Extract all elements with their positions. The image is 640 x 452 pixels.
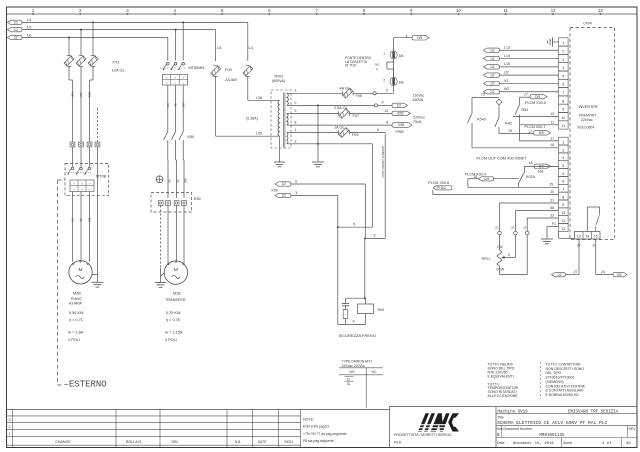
svg-text:W2: W2 <box>504 87 509 91</box>
svg-text:W01: W01 <box>88 91 92 98</box>
svg-text:FILE:: FILE: <box>394 441 402 445</box>
svg-text:0.75 KW: 0.75 KW <box>166 311 181 315</box>
svg-text:F05: F05 <box>356 94 363 98</box>
svg-text:1/2: 1/2 <box>490 82 495 86</box>
svg-text:E BOBINA 50V60 HZ: E BOBINA 50V60 HZ <box>546 393 580 397</box>
svg-text:18: 18 <box>550 143 554 147</box>
svg-text:1/2: 1/2 <box>490 73 495 77</box>
svg-text:1A GL: 1A GL <box>334 126 345 130</box>
svg-text:In = 2.15A: In = 2.15A <box>165 331 183 335</box>
svg-text:1/2: 1/2 <box>490 90 495 94</box>
svg-text:16A: 16A <box>538 170 545 174</box>
svg-text:W7: W7 <box>181 102 185 107</box>
svg-text:13: 13 <box>577 234 581 238</box>
svg-text:U2: U2 <box>504 70 509 74</box>
svg-text:75: 75 <box>481 93 485 97</box>
svg-text:η = 0.76: η = 0.76 <box>166 318 180 322</box>
svg-text:1: 1 <box>295 128 297 132</box>
svg-text:REV: REV <box>629 427 637 431</box>
svg-text:77: 77 <box>524 93 528 97</box>
svg-text:4: 4 <box>406 34 408 38</box>
svg-text:>: > <box>89 182 91 186</box>
svg-text:Size: Size <box>497 427 503 431</box>
svg-text:F09: F09 <box>352 133 359 137</box>
svg-text:3: 3 <box>295 139 297 143</box>
svg-text:U1: U1 <box>71 218 75 222</box>
svg-text:5: 5 <box>508 253 510 257</box>
svg-text:EMISVARO TRF SEDIZIA: EMISVARO TRF SEDIZIA <box>568 410 619 414</box>
svg-text:13: 13 <box>550 112 554 116</box>
svg-text:November 15, 2016: November 15, 2016 <box>513 441 554 446</box>
svg-text:6: 6 <box>562 83 564 87</box>
svg-text:1/2: 1/2 <box>557 273 562 277</box>
svg-text:3: 3 <box>562 58 564 62</box>
svg-text:6: 6 <box>377 128 379 132</box>
svg-text:24: 24 <box>601 270 605 274</box>
svg-text:9: 9 <box>295 109 297 113</box>
svg-text:L13: L13 <box>504 46 510 50</box>
svg-text:>: > <box>73 182 75 186</box>
svg-text:Sheet: Sheet <box>563 441 572 445</box>
svg-text:2: 2 <box>383 79 385 83</box>
svg-text:BOLLA N.: BOLLA N. <box>126 440 142 444</box>
svg-text:N.B: N.B <box>235 440 241 444</box>
svg-text:M: M <box>79 267 83 273</box>
svg-text:15: 15 <box>594 234 598 238</box>
svg-text:(0.38A): (0.38A) <box>246 117 258 121</box>
svg-text:23: 23 <box>523 226 527 230</box>
svg-text:L36: L36 <box>256 96 262 100</box>
svg-text:2.5A GL: 2.5A GL <box>334 106 348 110</box>
svg-text:10: 10 <box>561 116 565 120</box>
svg-text:D/2: D/2 <box>484 177 489 181</box>
svg-text:23: 23 <box>550 213 554 217</box>
svg-text:2: 2 <box>562 148 564 152</box>
svg-text:PROGETTISTA : MORETTI SERGIO: PROGETTISTA : MORETTI SERGIO <box>394 433 452 437</box>
svg-text:110Vac: 110Vac <box>413 93 425 97</box>
svg-text:INVERTER: INVERTER <box>579 105 598 109</box>
svg-text:1: 1 <box>562 41 564 45</box>
svg-text:D/2: D/2 <box>441 186 446 190</box>
svg-text:K50: K50 <box>188 135 195 139</box>
svg-text:10: 10 <box>384 109 388 113</box>
svg-text:13: 13 <box>598 8 603 13</box>
svg-text:13: 13 <box>561 211 565 215</box>
svg-text:12A GL: 12A GL <box>112 68 126 73</box>
svg-text:TRANSFER: TRANSFER <box>165 298 186 302</box>
svg-text:FT1: FT1 <box>113 60 121 65</box>
svg-text:75VA: 75VA <box>413 120 422 124</box>
svg-text:PLCM X00.5: PLCM X00.5 <box>525 101 546 105</box>
svg-text:K02A: K02A <box>526 175 536 179</box>
svg-text:D/2: D/2 <box>539 165 544 169</box>
svg-text:PWB: PWB <box>396 130 405 134</box>
svg-text:11: 11 <box>561 124 565 128</box>
svg-text:0: 0 <box>382 101 384 105</box>
svg-text:2: 2 <box>8 425 10 429</box>
svg-text:1/2: 1/2 <box>490 48 495 52</box>
svg-text:0: 0 <box>295 101 297 105</box>
svg-text:Title: Title <box>498 416 504 420</box>
svg-text:5: 5 <box>353 222 355 226</box>
svg-text:6: 6 <box>562 180 564 184</box>
svg-text:3G10.0604: 3G10.0604 <box>577 126 594 130</box>
svg-text:6: 6 <box>374 234 376 238</box>
svg-text:12: 12 <box>561 227 565 231</box>
svg-text:0/3: 0/3 <box>617 273 622 277</box>
svg-text:8: 8 <box>562 99 564 103</box>
svg-text:E50: E50 <box>194 197 201 201</box>
svg-text:3: 3 <box>295 89 297 93</box>
svg-text:L4: L4 <box>249 45 254 50</box>
svg-text:1/2: 1/2 <box>490 57 495 61</box>
svg-text:10: 10 <box>456 8 461 13</box>
svg-text:220Vcc: 220Vcc <box>413 116 425 120</box>
svg-text:21: 21 <box>550 198 554 202</box>
svg-text:27: 27 <box>574 270 578 274</box>
svg-text:1/2: 1/2 <box>13 21 18 25</box>
svg-text:NOTE:: NOTE: <box>303 417 314 421</box>
svg-text:In = 1.8A: In = 1.8A <box>68 331 84 335</box>
svg-text:1/2: 1/2 <box>13 28 18 32</box>
svg-text:1/2: 1/2 <box>282 194 287 198</box>
svg-text:17: 17 <box>550 136 554 140</box>
svg-text:220Vac 220Vcc: 220Vac 220Vcc <box>342 364 366 368</box>
svg-text:F07: F07 <box>353 114 360 118</box>
svg-text:MT50MN: MT50MN <box>189 66 205 70</box>
svg-text:20: 20 <box>550 190 554 194</box>
svg-text:V5: V5 <box>174 103 178 107</box>
svg-text:Date:: Date: <box>497 441 505 445</box>
svg-text:8: 8 <box>295 121 297 125</box>
svg-text:TR01: TR01 <box>274 75 283 79</box>
svg-text:M: M <box>174 267 178 273</box>
svg-text:CCW: CCW <box>496 268 505 272</box>
svg-text:3: 3 <box>8 418 10 422</box>
svg-text:U01: U01 <box>71 92 75 98</box>
svg-text:9: 9 <box>562 108 564 112</box>
svg-text:ALIMENT. FRENO 24Vcc: ALIMENT. FRENO 24Vcc <box>381 146 385 178</box>
svg-text:>: > <box>81 182 83 186</box>
svg-text:M2B: M2B <box>73 291 81 295</box>
svg-text:0/52: 0/52 <box>397 112 403 116</box>
svg-text:4: 4 <box>562 66 564 70</box>
svg-text:2: 2 <box>386 89 388 93</box>
svg-text:12: 12 <box>551 8 556 13</box>
svg-text:450VA: 450VA <box>413 98 424 102</box>
svg-text:PLCM OUT COM X00.4/5/6/7: PLCM OUT COM X00.4/5/6/7 <box>477 156 527 160</box>
svg-text:L35: L35 <box>256 131 262 135</box>
svg-text:DEL: DEL <box>172 440 179 444</box>
svg-text:K549: K549 <box>477 118 486 122</box>
svg-text:3: 3 <box>295 191 297 195</box>
svg-text:V5: V5 <box>176 179 180 183</box>
svg-text:11: 11 <box>550 120 554 124</box>
svg-text:CF04: CF04 <box>583 22 592 26</box>
svg-text:1: 1 <box>8 432 10 436</box>
svg-text:V1: V1 <box>79 218 83 222</box>
svg-text:D8: D8 <box>399 81 404 85</box>
svg-text:Machine SV19: Machine SV19 <box>498 409 529 414</box>
svg-text:2 POLI: 2 POLI <box>68 338 80 342</box>
svg-text:W1: W1 <box>88 217 92 222</box>
svg-text:2: 2 <box>562 50 564 54</box>
svg-text:D/5: D/5 <box>539 131 544 135</box>
svg-text:20: 20 <box>436 185 440 189</box>
svg-text:W5: W5 <box>184 178 188 183</box>
svg-text:D8: D8 <box>399 54 404 58</box>
svg-text:F04: F04 <box>225 67 233 72</box>
svg-text:E EQUIVALENTI: E EQUIVALENTI <box>488 374 514 378</box>
svg-text:>: > <box>89 187 91 191</box>
svg-text:L14: L14 <box>504 54 510 58</box>
svg-text:A3 ARIA: A3 ARIA <box>69 301 83 305</box>
svg-text:21: 21 <box>495 226 499 230</box>
svg-text:R04: R04 <box>378 308 385 312</box>
svg-text:1: 1 <box>562 140 564 144</box>
svg-text:U3: U3 <box>166 103 170 107</box>
svg-text:220Vac: 220Vac <box>581 118 593 122</box>
svg-text:(600VA): (600VA) <box>272 79 285 83</box>
svg-text:D/9: D/9 <box>417 36 422 40</box>
svg-text:FREMONT: FREMONT <box>579 114 597 118</box>
svg-text:+75+76+77 da pag.seguente: +75+76+77 da pag.seguente <box>303 432 347 436</box>
svg-text:SIGN: SIGN <box>284 440 293 444</box>
svg-text:M1B: M1B <box>173 291 181 295</box>
svg-text:L6: L6 <box>27 32 32 37</box>
svg-text:76: 76 <box>508 129 512 133</box>
svg-text:1/2: 1/2 <box>397 104 402 108</box>
svg-text:V01: V01 <box>79 92 83 98</box>
svg-text:Document Number: Document Number <box>504 427 533 431</box>
svg-text:22: 22 <box>511 226 515 230</box>
svg-text:3: 3 <box>562 156 564 160</box>
svg-text:4A GL: 4A GL <box>340 87 351 91</box>
svg-text:88: 88 <box>550 206 554 210</box>
svg-text:η = 0.71: η = 0.71 <box>69 318 83 322</box>
svg-text:5: 5 <box>562 172 564 176</box>
svg-text:NC: NC <box>372 370 377 374</box>
svg-text:11: 11 <box>561 219 565 223</box>
svg-text:V2: V2 <box>504 79 508 83</box>
svg-text:R42: R42 <box>505 122 512 126</box>
svg-text:16: 16 <box>529 161 533 165</box>
svg-text:K09: K09 <box>272 188 278 192</box>
svg-text:1: 1 <box>383 52 385 56</box>
svg-text:6: 6 <box>295 180 297 184</box>
svg-text:CHANGE: CHANGE <box>55 440 71 444</box>
svg-text:9: 9 <box>353 320 355 324</box>
svg-text:NO: NO <box>349 370 354 374</box>
svg-text:L15: L15 <box>504 62 510 66</box>
svg-text:1/2: 1/2 <box>13 36 18 40</box>
svg-text:P1: P1 <box>552 222 556 226</box>
svg-text:4: 4 <box>562 164 564 168</box>
svg-text:15: 15 <box>549 183 553 187</box>
svg-text:L5: L5 <box>217 45 222 50</box>
svg-text:DATE: DATE <box>258 440 268 444</box>
svg-text:DI ‘P16’: DI ‘P16’ <box>345 63 357 67</box>
svg-text:2A AM: 2A AM <box>225 77 237 82</box>
svg-text:R53: R53 <box>522 108 529 112</box>
svg-text:7: 7 <box>562 91 564 95</box>
svg-text:31: 31 <box>347 382 351 386</box>
svg-text:L4: L4 <box>27 17 32 22</box>
svg-text:L5: L5 <box>27 24 32 29</box>
svg-text:21: 21 <box>347 377 351 381</box>
svg-text:U5: U5 <box>168 179 172 183</box>
svg-text:–ESTERNO: –ESTERNO <box>64 379 107 389</box>
svg-text:D/9: D/9 <box>535 95 540 99</box>
svg-text:A: A <box>376 67 378 71</box>
svg-text:>: > <box>73 187 75 191</box>
svg-text:1/2: 1/2 <box>282 182 287 186</box>
svg-text:9: 9 <box>562 203 564 207</box>
svg-text:>: > <box>81 187 83 191</box>
svg-text:11: 11 <box>504 8 509 13</box>
svg-text:2 of: 2 of <box>602 441 612 446</box>
svg-text:RP01: RP01 <box>482 257 491 261</box>
svg-text:1/2: 1/2 <box>490 65 495 69</box>
svg-text:30: 30 <box>626 442 631 446</box>
svg-text:5: 5 <box>562 74 564 78</box>
svg-text:17: 17 <box>528 130 532 134</box>
svg-text:0/55: 0/55 <box>398 123 404 127</box>
svg-text:0.55 KW: 0.55 KW <box>69 311 84 315</box>
svg-text:8: 8 <box>386 121 388 125</box>
svg-text:14: 14 <box>585 234 589 238</box>
svg-text:E/34 (/34) pag1/2: E/34 (/34) pag1/2 <box>303 425 329 429</box>
svg-text:SICUREZZA FRENO: SICUREZZA FRENO <box>339 333 377 338</box>
svg-text:ALL’ECCITAZIONE: ALL’ECCITAZIONE <box>488 394 519 398</box>
svg-text:P8 sia pag.seguente: P8 sia pag.seguente <box>303 439 334 443</box>
svg-text:SCHEMA ELETTRICO CE ACLV GONV: SCHEMA ELETTRICO CE ACLV GONV PF RAL PLC <box>497 420 608 426</box>
svg-text:PLCM X00.7: PLCM X00.7 <box>525 125 546 129</box>
svg-text:8: 8 <box>562 195 564 199</box>
svg-text:CW: CW <box>497 245 503 249</box>
svg-text:7: 7 <box>562 188 564 192</box>
svg-text:4 POLI: 4 POLI <box>165 338 177 342</box>
